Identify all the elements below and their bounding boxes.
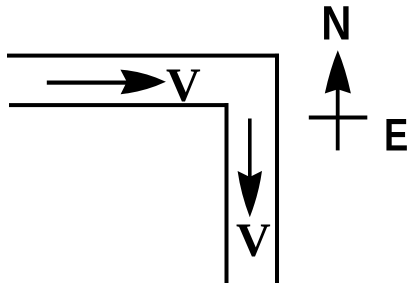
svg-text:V: V [236, 214, 271, 267]
velocity arrow horizontal flow [47, 70, 166, 95]
label N [321, 0, 351, 50]
pipe outer wall right vertical [275, 54, 279, 283]
pipe inner wall horizontal [9, 103, 229, 107]
compass east-west crossbar [309, 116, 368, 120]
svg-text:N: N [321, 0, 351, 50]
svg-text:V: V [166, 59, 201, 112]
svg-text:E: E [384, 110, 408, 161]
pipe inner wall vertical [225, 103, 229, 283]
velocity arrow vertical flow [238, 119, 262, 218]
pipe outer wall top horizontal [7, 54, 279, 58]
compass north arrow [325, 50, 351, 150]
label E [384, 110, 408, 161]
